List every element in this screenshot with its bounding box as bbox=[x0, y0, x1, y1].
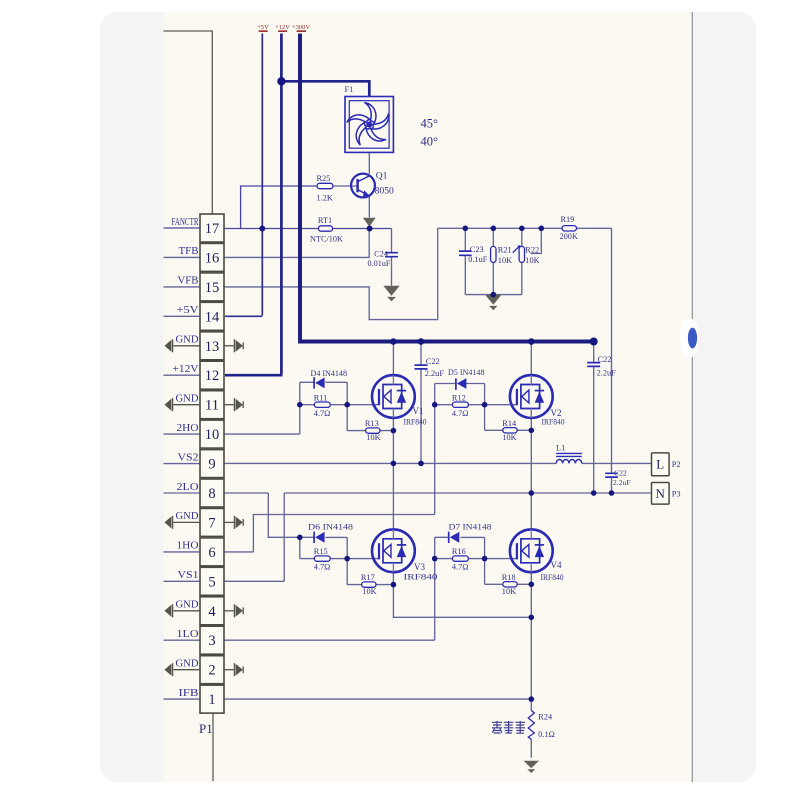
svg-text:P1: P1 bbox=[199, 721, 213, 736]
svg-text:2.2uF: 2.2uF bbox=[613, 478, 631, 487]
svg-text:GND: GND bbox=[176, 511, 199, 522]
svg-text:D6 IN4148: D6 IN4148 bbox=[308, 522, 353, 531]
svg-text:8: 8 bbox=[208, 486, 215, 502]
svg-text:IRF840: IRF840 bbox=[404, 572, 438, 581]
svg-text:D4 IN4148: D4 IN4148 bbox=[311, 369, 348, 378]
svg-text:R21: R21 bbox=[498, 246, 512, 255]
svg-text:10: 10 bbox=[205, 427, 220, 443]
svg-text:6: 6 bbox=[208, 545, 215, 561]
svg-text:9: 9 bbox=[208, 457, 215, 473]
svg-text:4.7Ω: 4.7Ω bbox=[452, 409, 469, 418]
svg-text:D7 IN4148: D7 IN4148 bbox=[449, 522, 492, 531]
svg-text:2LO: 2LO bbox=[177, 482, 199, 493]
svg-text:+12V: +12V bbox=[275, 24, 290, 31]
svg-text:2HO: 2HO bbox=[177, 423, 199, 434]
svg-text:L: L bbox=[656, 456, 664, 471]
svg-text:0.1Ω: 0.1Ω bbox=[538, 730, 555, 739]
svg-text:L1: L1 bbox=[556, 444, 565, 453]
svg-text:GND: GND bbox=[176, 335, 199, 346]
svg-text:D5 IN4148: D5 IN4148 bbox=[448, 368, 485, 377]
svg-text:1LO: 1LO bbox=[177, 629, 199, 640]
svg-text:2: 2 bbox=[208, 663, 215, 679]
svg-text:VS2: VS2 bbox=[178, 452, 199, 463]
svg-text:C22: C22 bbox=[614, 468, 627, 477]
svg-text:IRF840: IRF840 bbox=[542, 418, 565, 427]
svg-text:V1: V1 bbox=[413, 406, 424, 416]
svg-text:4: 4 bbox=[208, 604, 216, 620]
svg-text:45°: 45° bbox=[421, 117, 439, 131]
svg-text:10K: 10K bbox=[502, 433, 516, 442]
svg-text:VS1: VS1 bbox=[178, 570, 199, 581]
svg-text:FANCTR: FANCTR bbox=[172, 217, 199, 228]
svg-text:R11: R11 bbox=[314, 393, 328, 402]
svg-text:8050: 8050 bbox=[375, 187, 394, 197]
svg-text:P2: P2 bbox=[672, 460, 681, 469]
svg-text:GND: GND bbox=[176, 600, 199, 611]
svg-text:R12: R12 bbox=[452, 393, 466, 402]
svg-text:1: 1 bbox=[208, 692, 215, 708]
svg-text:11: 11 bbox=[205, 398, 219, 414]
svg-text:2.2uF: 2.2uF bbox=[425, 369, 445, 378]
svg-text:10K: 10K bbox=[525, 256, 539, 265]
svg-text:R19: R19 bbox=[561, 215, 575, 224]
svg-text:12: 12 bbox=[205, 368, 220, 384]
svg-text:3: 3 bbox=[208, 633, 215, 649]
svg-text:F1: F1 bbox=[345, 85, 354, 94]
svg-text:16: 16 bbox=[205, 250, 220, 266]
svg-text:VFB: VFB bbox=[178, 276, 199, 287]
svg-text:V3: V3 bbox=[414, 562, 425, 572]
svg-text:NTC/10K: NTC/10K bbox=[310, 235, 343, 244]
svg-text:GND: GND bbox=[176, 394, 199, 405]
svg-text:10K: 10K bbox=[362, 587, 376, 596]
svg-text:40°: 40° bbox=[421, 135, 439, 149]
svg-text:+300V: +300V bbox=[292, 24, 310, 31]
svg-text:C24: C24 bbox=[374, 249, 389, 258]
svg-text:P3: P3 bbox=[672, 490, 681, 499]
svg-text:+5V: +5V bbox=[177, 305, 199, 316]
svg-text:4.7Ω: 4.7Ω bbox=[452, 563, 469, 572]
svg-text:+12V: +12V bbox=[173, 364, 199, 375]
svg-text:V4: V4 bbox=[551, 560, 562, 570]
svg-text:R17: R17 bbox=[361, 573, 375, 582]
svg-text:200K: 200K bbox=[560, 232, 578, 241]
svg-text:14: 14 bbox=[205, 309, 220, 325]
svg-text:2.2uF: 2.2uF bbox=[597, 368, 617, 377]
svg-text:1HO: 1HO bbox=[177, 541, 199, 552]
svg-text:C23: C23 bbox=[470, 245, 484, 254]
svg-text:17: 17 bbox=[205, 221, 220, 237]
svg-text:R24: R24 bbox=[538, 713, 553, 722]
svg-text:R18: R18 bbox=[502, 573, 516, 582]
svg-text:IFB: IFB bbox=[179, 688, 199, 699]
svg-text:7: 7 bbox=[208, 515, 215, 531]
svg-text:5: 5 bbox=[208, 574, 215, 590]
svg-text:4.7Ω: 4.7Ω bbox=[314, 409, 331, 418]
svg-text:13: 13 bbox=[205, 339, 220, 355]
svg-text:C22: C22 bbox=[598, 355, 612, 364]
svg-text:R25: R25 bbox=[317, 174, 331, 183]
svg-text:0.1uF: 0.1uF bbox=[468, 255, 487, 264]
svg-text:R16: R16 bbox=[452, 547, 466, 556]
svg-text:10K: 10K bbox=[502, 587, 516, 596]
svg-text:IRF840: IRF840 bbox=[404, 418, 427, 427]
svg-text:GND: GND bbox=[176, 659, 199, 670]
svg-text:10K: 10K bbox=[366, 433, 380, 442]
svg-text:10K: 10K bbox=[498, 256, 512, 265]
svg-text:RT1: RT1 bbox=[318, 216, 332, 225]
svg-text:R14: R14 bbox=[502, 419, 517, 428]
svg-text:C22: C22 bbox=[426, 357, 440, 366]
svg-text:15: 15 bbox=[205, 280, 220, 296]
svg-text:Q1: Q1 bbox=[376, 172, 388, 182]
svg-text:+5V: +5V bbox=[257, 24, 269, 31]
svg-text:IRF840: IRF840 bbox=[541, 573, 564, 582]
svg-text:R13: R13 bbox=[365, 419, 379, 428]
svg-text:4.7Ω: 4.7Ω bbox=[314, 563, 331, 572]
svg-text:1.2K: 1.2K bbox=[317, 194, 333, 203]
svg-text:TFB: TFB bbox=[179, 246, 199, 257]
svg-text:R22: R22 bbox=[525, 246, 539, 255]
svg-text:0.01uF: 0.01uF bbox=[368, 259, 391, 268]
svg-text:R15: R15 bbox=[314, 547, 328, 556]
svg-text:N: N bbox=[656, 486, 666, 501]
